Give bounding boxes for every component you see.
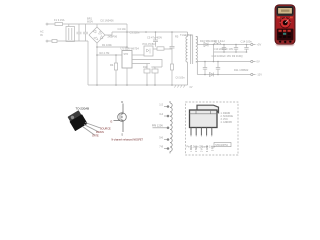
svg-text:S: S [121, 133, 123, 137]
wire U1 pin fb [132, 60, 162, 68]
package body [190, 110, 218, 128]
package tab outline [197, 105, 219, 112]
bridge rectifier BR1 [89, 24, 105, 43]
resistor R4 drop [114, 55, 117, 85]
svg-text:C13 2200uF 10V: C13 2200uF 10V [214, 47, 234, 51]
svg-text:0V: 0V [257, 60, 260, 64]
svg-text:G: G [110, 120, 112, 124]
capacitor C14 [244, 45, 248, 53]
diode D11 [210, 73, 214, 77]
svg-text:3. VCC: 3. VCC [221, 119, 229, 121]
svg-text:Pin: 1.Drain 2.Source 3.Vcc: Pin: 1.Drain 2.Source 3.Vcc [187, 146, 216, 149]
capacitor CX1 [77, 24, 82, 41]
capacitor C12 [222, 45, 226, 53]
resistor R10 [144, 69, 150, 73]
svg-text:F1 3.15A: F1 3.15A [54, 18, 65, 22]
capacitor CX2 [83, 24, 88, 41]
svg-text:0V: 0V [190, 86, 193, 89]
wire neutral drop to bus [87, 41, 89, 85]
diode D10 [204, 43, 208, 47]
wire U1 pin to opto [132, 54, 144, 56]
terminal row C [251, 73, 256, 75]
secondary row A [197, 44, 250, 46]
node AC input terminals [46, 23, 48, 42]
multimeter [275, 5, 295, 47]
svg-text:C4 10n: C4 10n [118, 27, 127, 31]
svg-text:TO-220AB: TO-220AB [76, 106, 90, 110]
capacitor C9 [152, 69, 158, 73]
vertical feedback line [170, 32, 175, 85]
svg-text:IN: IN [40, 33, 43, 37]
terminal row A [251, 43, 256, 45]
svg-text:3-4: 3-4 [159, 112, 163, 116]
winding taps [153, 106, 170, 150]
svg-text:4. GND/FB: 4. GND/FB [221, 122, 233, 124]
wire sense stub [97, 54, 122, 56]
wire bridge bottom to bus [96, 43, 98, 85]
svg-text:U1 STR-W6754: U1 STR-W6754 [121, 47, 140, 51]
wire AC neutral bottom [48, 40, 89, 42]
junction dots [96, 31, 247, 86]
svg-text:7-8: 7-8 [159, 145, 163, 149]
secondary row C [197, 74, 250, 76]
fuse F1 [55, 23, 63, 26]
package leads [191, 128, 212, 136]
svg-text:D2 1N5406: D2 1N5406 [101, 19, 115, 23]
pin labels [191, 145, 215, 152]
ground bus [88, 84, 188, 86]
wire gate feed [97, 46, 127, 48]
svg-text:R5: R5 [175, 35, 179, 39]
capacitor C7 drop [153, 32, 158, 47]
transistor leads [83, 123, 101, 136]
bottom-right boxed label [214, 143, 231, 147]
wire HV rail [112, 31, 188, 33]
wire C4 drop [126, 24, 128, 51]
wire bridge out to rail riser [105, 32, 112, 35]
right text block [221, 112, 234, 124]
secondary row B [197, 61, 250, 63]
svg-text:C10 1000uF 16V D9 31DQ: C10 1000uF 16V D9 31DQ [212, 54, 243, 58]
svg-text:D: D [121, 100, 123, 104]
capacitor C13 [234, 45, 238, 53]
transformer T1 [186, 32, 198, 85]
svg-text:1. DRAIN: 1. DRAIN [221, 112, 231, 115]
transistor package TO-220 [67, 110, 88, 131]
opto PC1 [144, 46, 153, 56]
wire AC line top [48, 23, 128, 25]
capacitor C16 [216, 62, 220, 75]
svg-text:GATE: GATE [92, 135, 99, 138]
svg-text:+5V: +5V [257, 43, 262, 47]
resistor R8 snub [157, 47, 164, 50]
wire U1 pin vcc [132, 63, 150, 65]
wire opto to rail drop [153, 48, 172, 50]
svg-text:R10: R10 [143, 66, 148, 69]
dashed box [186, 102, 239, 155]
svg-text:C6 100n: C6 100n [176, 77, 186, 80]
svg-text:5-6: 5-6 [159, 136, 163, 140]
winding labels [152, 103, 164, 149]
svg-text:600V: 600V [87, 20, 93, 24]
mosfet symbol [114, 104, 127, 133]
svg-text:R4: R4 [110, 63, 114, 67]
svg-text:PC1 PC817: PC1 PC817 [143, 42, 157, 46]
svg-text:C14 100n: C14 100n [241, 39, 253, 43]
svg-text:D11 1N5822: D11 1N5822 [234, 68, 249, 72]
svg-text:R2 4.7M: R2 4.7M [100, 51, 110, 55]
inductor L2 [214, 43, 221, 45]
svg-text:STR-W6754: STR-W6754 [215, 145, 228, 147]
svg-text:PRI 120V: PRI 120V [152, 124, 163, 128]
svg-text:L2 3.3uH: L2 3.3uH [214, 39, 225, 43]
svg-text:N-channel enhanced MOSFET: N-channel enhanced MOSFET [112, 139, 144, 141]
wire mid drop [213, 45, 215, 62]
chassis hatch [174, 85, 185, 88]
capacitor C17 [203, 62, 207, 75]
svg-text:C3 220n: C3 220n [130, 31, 140, 35]
op IC U1 box [122, 51, 132, 69]
svg-text:-12V: -12V [257, 73, 263, 77]
svg-text:2. SOURCE: 2. SOURCE [221, 116, 234, 118]
wire U1 bottom pin to bus [126, 68, 128, 85]
terminal row B [251, 60, 256, 62]
wire mid rail [214, 51, 247, 53]
svg-text:T1 EE2834: T1 EE2834 [180, 34, 193, 37]
svg-text:1-2: 1-2 [159, 103, 163, 107]
resistor R0 on neutral [52, 40, 57, 43]
common mode choke L1 [66, 24, 75, 42]
svg-text:STR: STR [124, 53, 129, 56]
svg-text:R1 100k: R1 100k [102, 43, 112, 47]
winding legend coil [170, 101, 172, 153]
svg-text:C5 47u 400V: C5 47u 400V [147, 36, 162, 40]
